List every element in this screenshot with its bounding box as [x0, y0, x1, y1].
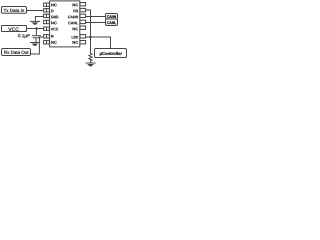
pin CANH (right) — [68, 14, 86, 18]
pin RS slope control (right) — [74, 8, 86, 12]
pin NC row5 (right) — [73, 26, 86, 30]
box CANL bus line — [106, 19, 118, 26]
pin VCC (left) — [44, 27, 59, 31]
pin GND (left) — [44, 14, 59, 18]
junction node VCC/C1 — [36, 27, 38, 29]
box uController — [95, 49, 127, 58]
box VCC supply — [2, 26, 27, 32]
wire GND pin to ground — [35, 17, 43, 21]
wire VCC to pin VCC — [27, 28, 44, 30]
resistor R1 slope control — [89, 53, 92, 62]
wire Tx Data In to pin D — [27, 10, 44, 12]
pin D driver input (left) — [44, 9, 54, 13]
pin NC row4 (left) — [44, 20, 57, 24]
wire CANH pin to CANH bus box — [86, 16, 106, 18]
ground (resistor R1) — [86, 63, 96, 66]
box Tx Data In — [2, 7, 27, 14]
box Rx Data Out — [2, 49, 31, 56]
label 0.1uF value of C1 — [18, 34, 30, 38]
wire CANL pin to CANL bus box — [86, 22, 106, 24]
IC U1 CAN transceiver body — [50, 1, 80, 47]
pin CANL (right) — [68, 20, 85, 24]
pin 1 NC (left) — [44, 3, 57, 6]
capacitor C1 0.1uF — [32, 29, 41, 43]
wire LBK pin to junction and uController — [86, 37, 111, 49]
ground (capacitor C1) — [30, 43, 40, 46]
pin NC row1 (right) — [73, 3, 86, 7]
ground (GND pin) — [30, 21, 40, 24]
pin NC row7 (left) — [44, 41, 57, 44]
junction node RS/LBK net — [89, 36, 91, 38]
box CANH bus line — [106, 14, 118, 20]
wire Rx Data Out to pin R — [31, 37, 44, 54]
wire RS pin down to resistor R1 — [86, 10, 91, 53]
pin LBK loopback (right) — [72, 35, 86, 39]
pin NC row7 (right) — [73, 41, 86, 44]
pin R receiver output (left) — [44, 35, 54, 38]
